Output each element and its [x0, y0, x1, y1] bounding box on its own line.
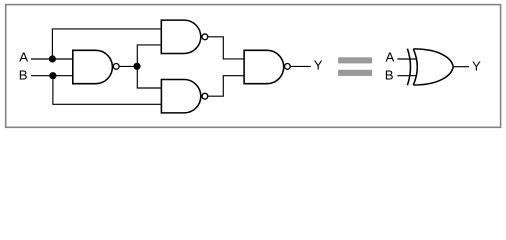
svg-text:B: B: [385, 67, 394, 82]
svg-text:Y: Y: [472, 59, 481, 74]
svg-text:A: A: [19, 50, 28, 65]
svg-text:Y: Y: [314, 58, 323, 73]
svg-text:A: A: [386, 50, 395, 65]
svg-text:B: B: [19, 67, 28, 82]
